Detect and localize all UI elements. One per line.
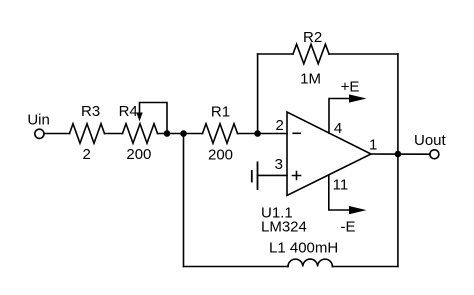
wire R1 to op-amp pin 2	[238, 133, 288, 135]
resistor R1	[203, 124, 238, 144]
wire bottom to inductor	[184, 266, 289, 268]
op-amp U1.1	[287, 112, 371, 196]
wire -E supply	[329, 175, 350, 210]
wiper wire of R4	[140, 103, 168, 134]
junction node C	[254, 130, 261, 137]
wire right vertical	[397, 54, 399, 267]
wire top left to R2	[258, 53, 293, 55]
wire R3 to R4	[105, 133, 123, 135]
svg-text:Uin: Uin	[27, 112, 50, 129]
ground	[252, 162, 258, 189]
svg-text:R2: R2	[303, 29, 322, 46]
wiper arrowhead R4	[136, 113, 142, 122]
svg-text:2: 2	[83, 146, 91, 163]
svg-text:200: 200	[126, 146, 151, 163]
wire pin 3 to ground	[258, 174, 288, 176]
wire input	[44, 133, 70, 135]
wire R2 to right vertical	[329, 53, 398, 55]
inductor L1	[288, 259, 332, 266]
minus sign pin 2	[293, 132, 300, 134]
svg-text:R3: R3	[81, 103, 100, 120]
terminal Uout	[430, 150, 439, 159]
wire output	[371, 153, 430, 155]
svg-text:R4: R4	[119, 103, 138, 120]
svg-text:1M: 1M	[300, 71, 321, 88]
junction node A	[164, 130, 171, 137]
svg-text:L1 400mH: L1 400mH	[269, 240, 338, 257]
svg-text:11: 11	[333, 177, 349, 194]
arrowhead +E	[349, 94, 367, 102]
arrowhead -E	[349, 206, 367, 214]
wire bottom left vertical	[183, 134, 185, 267]
wire inductor to right vertical	[332, 266, 398, 268]
svg-text:2: 2	[275, 117, 283, 134]
wire feedback left vertical	[257, 54, 259, 134]
junction node B	[180, 130, 187, 137]
svg-text:R1: R1	[211, 104, 230, 121]
plus sign pin 3	[293, 172, 301, 180]
svg-text:3: 3	[275, 156, 283, 173]
wire +E supply	[329, 99, 350, 134]
terminal Uin	[35, 129, 44, 138]
wire R4 to node A	[158, 133, 203, 135]
svg-text:200: 200	[208, 147, 233, 164]
svg-text:4: 4	[334, 120, 342, 137]
svg-text:-E: -E	[341, 219, 356, 236]
svg-text:LM324: LM324	[261, 219, 307, 236]
resistor R3	[70, 124, 105, 144]
potentiometer R4	[123, 124, 158, 144]
svg-text:Uout: Uout	[414, 132, 447, 149]
resistor R2	[293, 44, 329, 64]
svg-text:1: 1	[369, 136, 377, 153]
svg-text:+E: +E	[341, 79, 360, 96]
junction node output	[395, 151, 402, 158]
